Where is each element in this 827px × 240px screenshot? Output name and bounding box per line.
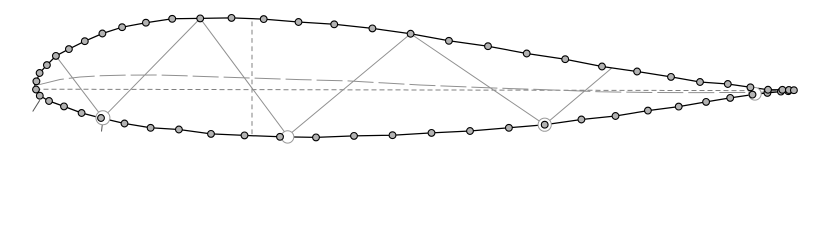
truss member T0-B0 xyxy=(56,56,103,118)
chord line (dashed) xyxy=(36,89,795,91)
open circle node B0 xyxy=(96,111,110,125)
upper surface polyline xyxy=(35,18,795,91)
surface node markers (lower) xyxy=(33,86,792,141)
truss member T2-B2 xyxy=(411,34,545,125)
open circle node B1 xyxy=(281,131,293,143)
lower surface polyline xyxy=(35,85,795,137)
tick below node B0 xyxy=(101,124,104,132)
truss member B1-T2 xyxy=(288,34,411,136)
camber line (long dash) xyxy=(39,75,795,93)
open circle node B3 (trailing edge) xyxy=(749,88,762,101)
truss member T1-B1 xyxy=(200,18,287,136)
max thickness station (vertical dashed) xyxy=(251,22,253,137)
surface node markers (upper) xyxy=(33,15,797,94)
tick at leading edge lower xyxy=(33,100,40,111)
open circle node B2 xyxy=(538,118,551,131)
truss member B2-T3 xyxy=(545,68,612,124)
truss member B0-T1 xyxy=(103,18,200,117)
